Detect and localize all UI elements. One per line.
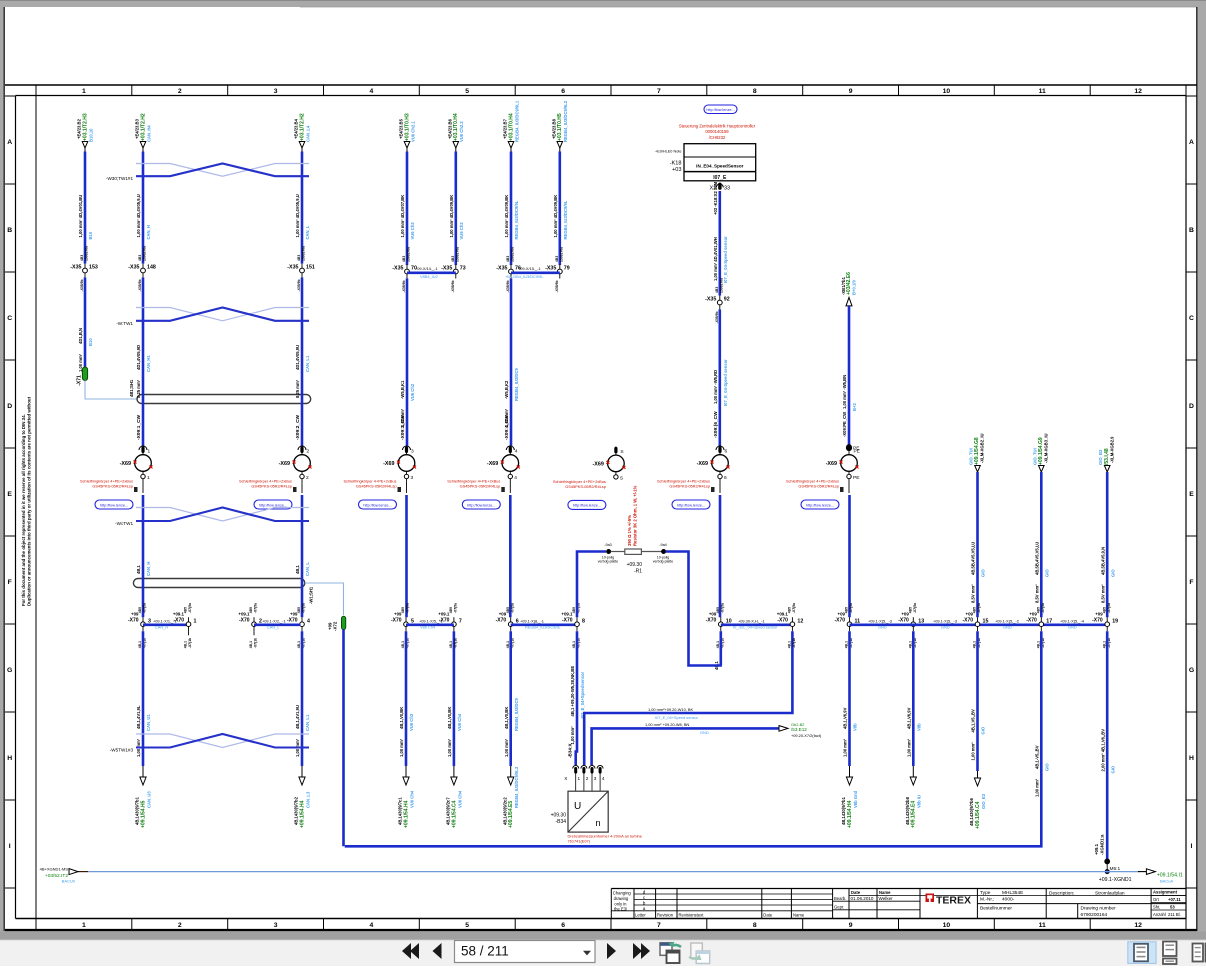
svg-text:/53.E12: /53.E12 — [791, 727, 807, 732]
svg-text:E: E — [7, 491, 12, 498]
svg-text:4: 4 — [307, 618, 310, 624]
svg-text:5: 5 — [465, 88, 469, 95]
svg-text:-X70: -X70 — [391, 618, 402, 624]
svg-text:-X7(5a: -X7(5a — [510, 603, 514, 613]
slip-ring connector -X69 pin 1 — [142, 446, 144, 455]
svg-text:-X7(5a: -X7(5a — [454, 603, 458, 613]
svg-text:-X7(1b: -X7(1b — [254, 638, 258, 648]
svg-text:-X7(5a: -X7(5a — [254, 603, 258, 613]
svg-text:-X35/9b: -X35/9b — [715, 311, 719, 323]
junction dot right — [662, 550, 666, 554]
page layout icons — [1128, 942, 1156, 964]
svg-text:Ort: Ort — [1153, 897, 1160, 902]
svg-text:4B5: 4B5 — [973, 607, 977, 613]
svg-text:+03 -K18:X2 30M: +03 -K18:X2 30M — [713, 181, 718, 215]
svg-text:Type: Type — [980, 890, 991, 896]
X70 pins 1,2 stubs and jumpers — [143, 623, 189, 626]
svg-text:-X35: -X35 — [287, 264, 298, 270]
svg-text:-X7(5a: -X7(5a — [849, 603, 853, 613]
svg-text:B+0.1/9: B+0.1/9 — [852, 280, 857, 295]
svg-text:-W1;SH1: -W1;SH1 — [309, 586, 314, 604]
svg-text:+09.1-X/1,_-1: +09.1-X/1,_-1 — [153, 618, 177, 623]
page combo box — [455, 941, 596, 963]
svg-text:4B,5B,4V5,V5,I,U: 4B,5B,4V5,V5,I,U — [971, 542, 976, 575]
connector -X35:79 — [559, 265, 561, 279]
slip-ring connector -X69 pin 6 — [719, 446, 721, 455]
svg-text:Duplication or announcements i: Duplication or announcements into third … — [27, 396, 32, 606]
next page button — [607, 943, 616, 959]
svg-text:+09.30: +09.30 — [551, 813, 567, 819]
svg-text:4B5: 4B5 — [788, 607, 792, 613]
svg-text:-X35: -X35 — [392, 265, 403, 271]
svg-text:I07_E_04-Speed sensor: I07_E_04-Speed sensor — [723, 359, 728, 406]
svg-text:+E4/23.B2: +E4/23.B2 — [77, 118, 82, 139]
svg-text:b: b — [643, 900, 646, 905]
svg-text:M.-Nr.:: M.-Nr.: — [980, 897, 994, 903]
svg-text:4B5: 4B5 — [506, 607, 510, 613]
svg-text:+09.1-X(8,_-1: +09.1-X(8,_-1 — [520, 618, 544, 623]
svg-text:+09.30: +09.30 — [627, 562, 643, 568]
svg-text:GIO: GIO — [1045, 763, 1050, 771]
svg-text:+09-X/14,_-1: +09-X/14,_-1 — [415, 266, 438, 271]
svg-text:4B,1430(9/2c7: 4B,1430(9/2c7 — [446, 797, 451, 825]
svg-text:1: 1 — [82, 922, 86, 929]
continuous icon — [1163, 942, 1177, 957]
svg-text:4B,1,V5,,BV: 4B,1,V5,,BV — [971, 709, 976, 732]
wire below pin10 to resistor return — [719, 631, 722, 665]
X70 jumper 10-12 — [721, 623, 793, 626]
svg-text:10: 10 — [943, 922, 951, 929]
svg-text:4B,1: 4B,1 — [909, 641, 913, 648]
type / description cells — [976, 889, 978, 919]
svg-text:1,00 mm²: 1,00 mm² — [843, 738, 848, 757]
svg-text:+E4/23.B3: +E4/23.B3 — [135, 118, 140, 139]
svg-text:CAN_U3: CAN_U3 — [146, 791, 151, 808]
toolbar controls — [402, 941, 1206, 965]
svg-text:I0_,E0,_04+speed sensor: I0_,E0,_04+speed sensor — [733, 625, 778, 630]
svg-text:1,00 mm² -W5,BN: 1,00 mm² -W5,BN — [842, 375, 847, 409]
svg-text:6: 6 — [725, 449, 728, 455]
svg-text:-K18: -K18 — [670, 161, 682, 167]
svg-text:33: 33 — [724, 186, 730, 192]
svg-text:7: 7 — [657, 922, 661, 929]
svg-text:+E4/23.B5: +E4/23.B5 — [399, 118, 404, 139]
svg-text:PE: PE — [854, 449, 860, 455]
resistor R1 — [611, 551, 625, 553]
X35 jumper 70-73 — [407, 271, 456, 274]
svg-text:-X70: -X70 — [287, 618, 298, 624]
svg-text:-X70: -X70 — [834, 618, 845, 624]
svg-text:-XLM-XGB2_IU: -XLM-XGB2_IU — [980, 433, 985, 463]
svg-text:-X7(1b: -X7(1b — [792, 638, 796, 648]
hyperlink oval — [95, 500, 133, 509]
svg-text:REGB4_IU3/DC9: REGB4_IU3/DC9 — [514, 368, 519, 401]
two page icon — [1193, 944, 1204, 962]
svg-text:verbdg-platte: verbdg-platte — [598, 560, 618, 564]
svg-text:-X69: -X69 — [697, 461, 708, 467]
svg-text:1,00 mm² -W5,RD: 1,00 mm² -W5,RD — [713, 370, 718, 404]
svg-text:Welker: Welker — [879, 896, 894, 901]
svg-text:8,5V mm²: 8,5V mm² — [971, 584, 976, 603]
svg-text:-B34:X: -B34:X — [568, 743, 573, 758]
svg-text:-X35: -X35 — [496, 265, 507, 271]
svg-text:11: 11 — [1039, 88, 1046, 95]
svg-text:4B,1,V0,BK: 4B,1,V0,BK — [447, 707, 452, 729]
svg-text:GIO_TUI: GIO_TUI — [1032, 448, 1037, 465]
svg-text:GIO_TUI: GIO_TUI — [969, 448, 974, 465]
svg-text:V8b Gnd: V8b Gnd — [853, 790, 858, 808]
bottom sheet-arrow at x=510.7 — [510, 766, 512, 778]
svg-text:1,00 mm² 4D,4V01,BU: 1,00 mm² 4D,4V01,BU — [78, 195, 83, 238]
shield drop to X72 — [305, 583, 344, 615]
svg-text:Resistor 3K 2 Ohm, 1 W, +/-1%: Resistor 3K 2 Ohm, 1 W, +/-1% — [633, 485, 638, 546]
svg-text:BACU0: BACU0 — [62, 879, 76, 884]
svg-text:Gepr.: Gepr. — [834, 904, 844, 909]
PE junction dot — [847, 445, 852, 450]
svg-text:-X09:1_CW: -X09:1_CW — [136, 414, 142, 440]
svg-text:1,00 mm² +09.20-W8, BN: 1,00 mm² +09.20-W8, BN — [645, 722, 689, 727]
svg-text:V8b Ch4: V8b Ch4 — [420, 625, 436, 630]
svg-text:Changing: Changing — [613, 891, 632, 896]
svg-text:+09.1-X(5,_-3: +09.1-X(5,_-3 — [868, 618, 892, 623]
svg-text:-WcTW1: -WcTW1 — [115, 521, 133, 526]
top terminal at x=407 — [404, 142, 410, 149]
svg-text:GIO: GIO — [981, 726, 986, 734]
svg-text:2: 2 — [307, 449, 310, 455]
bottom sheet-arrow at x=849.5 — [849, 766, 851, 778]
sheet arrow right of pin3 wire — [779, 726, 788, 732]
cable shield symbol — [133, 579, 304, 588]
svg-text:+B7-DB4_IU3/DC9/9L: +B7-DB4_IU3/DC9/9L — [505, 274, 544, 279]
svg-text:-X70: -X70 — [777, 618, 788, 624]
hyperlink oval — [801, 500, 839, 509]
svg-text:-X70: -X70 — [1026, 618, 1037, 624]
svg-text:3: 3 — [411, 475, 414, 481]
svg-text:73: 73 — [460, 265, 466, 271]
svg-text:-X7(5a: -X7(5a — [1041, 603, 1045, 613]
svg-text:only in: only in — [614, 901, 627, 906]
svg-text:4B3: 4B3 — [138, 255, 142, 261]
junction dot left — [607, 550, 611, 554]
svg-text:B+2: B+2 — [852, 403, 857, 411]
svg-text:1509276a: 1509276a — [455, 247, 459, 262]
svg-text:VU6 Ch4: VU6 Ch4 — [409, 790, 414, 808]
svg-text:-X7(5a: -X7(5a — [977, 603, 981, 613]
svg-text:verbdg-platte: verbdg-platte — [653, 560, 673, 564]
svg-text:Date: Date — [851, 890, 861, 895]
slip-ring connector -X69 pin PE — [848, 446, 850, 455]
connector -X70 pin 1 — [188, 617, 190, 631]
svg-text:8,25 mm²: 8,25 mm² — [295, 379, 300, 398]
svg-text:-X70: -X70 — [239, 618, 250, 624]
svg-text:Revision: Revision — [657, 912, 674, 917]
svg-text:2: 2 — [306, 475, 309, 481]
svg-text:4B,1: 4B,1 — [297, 641, 301, 648]
svg-text:CAN_L: CAN_L — [305, 562, 310, 576]
svg-text:3: 3 — [594, 776, 597, 781]
top terminal at x=559.8 — [557, 142, 563, 149]
svg-text:G: G — [7, 667, 12, 674]
svg-text:4B,1,V0,BK: 4B,1,V0,BK — [399, 707, 404, 729]
svg-text:X: X — [564, 776, 567, 781]
svg-text:Description:: Description: — [1049, 891, 1074, 897]
sheet-in terminal x=1041.3 — [1039, 466, 1045, 473]
svg-text:-X7(5a: -X7(5a — [720, 603, 724, 613]
svg-text:4B5: 4B5 — [845, 607, 849, 613]
svg-text:V8b: V8b — [853, 723, 858, 731]
svg-text:4B,1430(9/2b8: 4B,1430(9/2b8 — [905, 796, 910, 825]
svg-text:http:/flow.lenze...: http:/flow.lenze... — [100, 503, 128, 507]
svg-text:D: D — [1189, 403, 1194, 410]
svg-text:GIO: GIO — [1110, 569, 1115, 577]
svg-text:B10,10: B10,10 — [88, 128, 93, 142]
svg-text:-XB1/7b1: -XB1/7b1 — [841, 276, 846, 295]
shield terminal X72 — [342, 616, 346, 629]
svg-text:12: 12 — [1134, 922, 1142, 929]
svg-text:4B,1: 4B,1 — [1037, 641, 1041, 648]
hyperlink oval above K18 — [704, 105, 737, 114]
bottom sheet-arrow at x=302 — [301, 766, 303, 778]
svg-text:Bestellnummer: Bestellnummer — [980, 906, 1012, 912]
pin X2:33 — [716, 184, 723, 188]
svg-text:Anzahl: Anzahl — [1153, 912, 1166, 917]
svg-text:4B,1430(9/2c2: 4B,1430(9/2c2 — [502, 797, 507, 825]
svg-text:I07_E_04+Speed sensor: I07_E_04+Speed sensor — [655, 715, 699, 720]
svg-text:+09.1-X(5,_-3: +09.1-X(5,_-3 — [933, 618, 957, 623]
svg-text:1,00 mm²: 1,00 mm² — [906, 738, 911, 757]
svg-text:GND: GND — [878, 625, 887, 630]
svg-text:19: 19 — [1112, 618, 1118, 624]
connector -X70 pin 11 — [849, 617, 851, 631]
hyperlink oval — [672, 500, 710, 509]
connector -X35:70 — [406, 265, 408, 279]
svg-text:1509276a: 1509276a — [302, 246, 306, 261]
svg-text:1,00 mm² 4D,4V05,9,U: 1,00 mm² 4D,4V05,9,U — [295, 194, 300, 237]
svg-text:4B,1: 4B,1 — [1102, 641, 1106, 648]
X70 jumper 11-19 — [850, 623, 1108, 626]
svg-text:4B5: 4B5 — [184, 607, 188, 613]
svg-text:1,00 mm²: 1,00 mm² — [504, 738, 509, 757]
top terminal at x=143 — [140, 142, 146, 149]
svg-text:-X35/9b: -X35/9b — [297, 279, 301, 291]
svg-text:-X69: -X69 — [120, 461, 131, 467]
svg-text:4B5: 4B5 — [909, 607, 913, 613]
svg-text:4B,1: 4B,1 — [249, 641, 253, 648]
svg-text:-X69: -X69 — [593, 461, 604, 467]
svg-text:1,00 mm²: 1,00 mm² — [447, 738, 452, 757]
svg-text:CAN_H: CAN_H — [146, 225, 151, 239]
svg-text:-X7(1b: -X7(1b — [454, 638, 458, 648]
svg-text:VU6 Ch4: VU6 Ch4 — [457, 790, 462, 808]
TEREX logo — [926, 894, 935, 903]
svg-text:-X35/9b: -X35/9b — [138, 279, 142, 291]
svg-text:F: F — [1189, 579, 1193, 586]
svg-text:GND: GND — [700, 730, 709, 735]
top terminal at x=302 — [299, 142, 305, 149]
svg-text:CAN_H: CAN_H — [155, 625, 168, 630]
svg-text:M5:1: M5:1 — [1110, 866, 1121, 872]
svg-text:+09.1: +09.1 — [1094, 843, 1099, 855]
next double-right button — [633, 943, 642, 959]
svg-text:PE: PE — [853, 475, 859, 481]
row ruler ticks and letters — [5, 95, 16, 97]
svg-text:I07_E: I07_E — [713, 175, 727, 181]
svg-text:-X7(5a: -X7(5a — [1107, 603, 1111, 613]
svg-text:Name: Name — [793, 912, 805, 917]
connector -X70 pin 5 — [405, 617, 407, 631]
svg-text:-X70: -X70 — [562, 618, 573, 624]
svg-text:Revisionstext: Revisionstext — [679, 912, 705, 917]
connector -X70 pin 7 — [453, 617, 455, 631]
svg-text:GIO: GIO — [1045, 569, 1050, 577]
svg-text:GND: GND — [1003, 625, 1012, 630]
svg-text:4D1,4V05,9U: 4D1,4V05,9U — [295, 345, 300, 370]
svg-text:B: B — [1189, 227, 1194, 234]
hyperlink oval — [568, 500, 606, 509]
svg-text:5: 5 — [465, 922, 469, 929]
svg-text:-X69: -X69 — [383, 461, 394, 467]
svg-text:VU6 Ch2.2: VU6 Ch2.2 — [459, 121, 464, 142]
svg-text:-X69: -X69 — [826, 461, 837, 467]
svg-text:12: 12 — [1134, 88, 1142, 95]
svg-text:REGB4_IU3/DC9/9L: REGB4_IU3/DC9/9L — [525, 625, 562, 630]
svg-text:17: 17 — [1046, 618, 1052, 624]
svg-text:Bearb.: Bearb. — [834, 896, 846, 901]
svg-text:1509276a: 1509276a — [559, 247, 563, 262]
svg-text:-W5TW1#3: -W5TW1#3 — [110, 748, 134, 753]
svg-text:4B,1: 4B,1 — [973, 641, 977, 648]
svg-text:-W:TW1: -W:TW1 — [116, 321, 133, 326]
X70 jumper 6-8 — [511, 623, 577, 626]
svg-text:12: 12 — [797, 618, 803, 624]
svg-text:CAN_L1: CAN_L1 — [305, 355, 310, 372]
wire X70:12 down to transducer pin2 — [584, 631, 792, 765]
svg-text:79: 79 — [564, 265, 570, 271]
connector -X70 pin 12 — [791, 617, 793, 631]
svg-text:1,00 mm² 4D,4V09,BK: 1,00 mm² 4D,4V09,BK — [553, 195, 558, 238]
svg-text:+09.1-X(5,_-2: +09.1-X(5,_-2 — [995, 618, 1019, 623]
svg-text:CAN_H1: CAN_H1 — [146, 355, 151, 372]
svg-text:-X09:3_CW: -X09:3_CW — [400, 414, 406, 440]
svg-text:-X7(5a: -X7(5a — [188, 603, 192, 613]
shield drop from X71 — [85, 381, 137, 400]
svg-text:4D1,4V05,9D: 4D1,4V05,9D — [136, 345, 141, 370]
svg-text:4B,1430(9/7b1: 4B,1430(9/7b1 — [135, 796, 140, 825]
svg-text:VU6 Ch2: VU6 Ch2 — [459, 222, 464, 240]
svg-text:4: 4 — [370, 922, 374, 929]
svg-text:4D1,B,N: 4D1,B,N — [78, 328, 83, 344]
svg-text:U: U — [574, 801, 581, 812]
svg-text:REGB4_IU3/DC9/9L: REGB4_IU3/DC9/9L — [514, 200, 519, 239]
svg-text:+09.30-X,H,_-1: +09.30-X,H,_-1 — [738, 618, 765, 623]
svg-text:9: 9 — [849, 88, 853, 95]
svg-text:VU6 Ch4: VU6 Ch4 — [457, 713, 462, 731]
svg-text:-9a4: -9a4 — [659, 543, 667, 547]
svg-text:4B,5B,4V5,9,N: 4B,5B,4V5,9,N — [1100, 547, 1105, 575]
svg-text:1509276a: 1509276a — [407, 247, 411, 262]
hyperlink oval — [462, 500, 500, 509]
column ruler ticks and numbers — [35, 85, 37, 96]
svg-text:4B3: 4B3 — [402, 256, 406, 262]
svg-text:-X71: -X71 — [77, 375, 83, 386]
svg-text:-W5,B,K1: -W5,B,K1 — [400, 380, 405, 399]
svg-text:4B5: 4B5 — [1102, 607, 1106, 613]
svg-text:+E9/HLE0 Note: +E9/HLE0 Note — [655, 150, 682, 154]
connector -X35:73 — [455, 265, 457, 279]
svg-text:4B,1: 4B,1 — [572, 641, 576, 648]
svg-text:GS45PKS-05R2/R4Lsp: GS45PKS-05R2/R4Lsp — [669, 484, 710, 489]
svg-text:8,25 mm²: 8,25 mm² — [136, 379, 141, 398]
svg-text:http:/flow.lenze...: http:/flow.lenze... — [573, 504, 601, 508]
svg-text:6: 6 — [561, 922, 565, 929]
svg-text:GIO: GIO — [1110, 765, 1115, 773]
connector -X35:151 — [301, 264, 303, 278]
svg-text:7: 7 — [657, 88, 661, 95]
svg-text:7: 7 — [459, 618, 462, 624]
svg-text:VU6 Ch2: VU6 Ch2 — [410, 383, 415, 401]
svg-text:-X35/9b: -X35/9b — [555, 280, 559, 292]
BACU bus line — [88, 871, 1139, 873]
svg-text:148: 148 — [147, 264, 156, 270]
svg-text:4B,1: 4B,1 — [449, 641, 453, 648]
gray strip under page — [0, 932, 1206, 941]
svg-text:-X09:(6_CW: -X09:(6_CW — [713, 411, 719, 438]
bottom sheet-arrow at x=143 — [142, 766, 144, 778]
svg-text:4B,1: 4B,1 — [138, 641, 142, 648]
svg-text:4B,1430(9/7c1: 4B,1430(9/7c1 — [398, 797, 403, 825]
main bus wire from X72 down and right — [344, 630, 345, 846]
svg-text:4B,1,V6,9V: 4B,1,V6,9V — [843, 707, 848, 729]
svg-text:+03: +03 — [672, 167, 682, 173]
connector -X70 pin 15 — [977, 617, 979, 631]
svg-text:A: A — [7, 139, 12, 146]
svg-text:V8b IU: V8b IU — [917, 795, 922, 808]
svg-text:-X35/9b: -X35/9b — [506, 280, 510, 292]
svg-text:I: I — [1191, 843, 1193, 850]
svg-text:92: 92 — [724, 296, 730, 302]
svg-text:15: 15 — [983, 618, 989, 624]
svg-text:-X35/9b: -X35/9b — [80, 279, 84, 291]
svg-text:-X70: -X70 — [898, 618, 909, 624]
svg-text:4B3: 4B3 — [715, 287, 719, 293]
resistor branch wire — [577, 552, 606, 618]
svg-text:-X35: -X35 — [128, 264, 139, 270]
svg-text:1,00 mm² 4D,4V05,9,U: 1,00 mm² 4D,4V05,9,U — [136, 194, 141, 237]
svg-text:4B3: 4B3 — [555, 256, 559, 262]
connector -X70 pin 8 — [576, 617, 578, 631]
inner margin line — [35, 96, 37, 919]
top terminal at x=511 — [508, 142, 514, 149]
ground junction M5:1 — [1105, 859, 1110, 864]
svg-text:3: 3 — [411, 449, 414, 455]
svg-text:the E3!: the E3! — [614, 907, 627, 912]
svg-text:-9a3: -9a3 — [604, 543, 612, 547]
drawing frame — [5, 84, 1197, 86]
svg-text:-XLM-XGB3_IU: -XLM-XGB3_IU — [1044, 433, 1049, 463]
svg-text:IN_E04_SpeedSensor: IN_E04_SpeedSensor — [696, 163, 743, 168]
svg-text:-X70: -X70 — [962, 618, 973, 624]
svg-text:Sht.: Sht. — [1153, 904, 1160, 909]
svg-text:CAN_L1: CAN_L1 — [305, 714, 310, 731]
slip-ring connector -X69 pin 4 — [509, 446, 511, 455]
svg-text:CAN_H4: CAN_H4 — [146, 125, 151, 142]
svg-text:+09.1-X(5,_-4: +09.1-X(5,_-4 — [1060, 618, 1085, 623]
svg-text:C: C — [7, 315, 12, 322]
title block — [611, 888, 1186, 890]
svg-text:Stromlaufplan: Stromlaufplan — [1095, 891, 1125, 897]
svg-text:+09.1/54.I1: +09.1/54.I1 — [1157, 872, 1183, 878]
svg-text:1: 1 — [82, 88, 86, 95]
